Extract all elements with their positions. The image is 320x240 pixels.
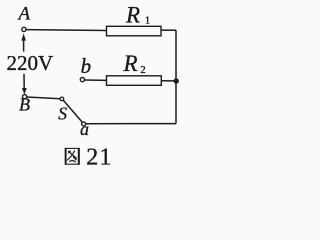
contact a xyxy=(80,119,89,139)
svg-text:A: A xyxy=(17,4,31,25)
node b xyxy=(80,54,91,82)
resistor R2 xyxy=(107,51,162,85)
voltage source 220V xyxy=(7,33,54,94)
svg-text:S: S xyxy=(58,103,67,123)
wire B to switch pivot xyxy=(27,97,60,99)
junction node xyxy=(174,78,179,83)
svg-text:b: b xyxy=(81,54,92,78)
wire right rail xyxy=(175,30,177,123)
switch S xyxy=(58,97,82,123)
wire b to R2 xyxy=(85,79,107,81)
wire A to R1 xyxy=(26,29,106,32)
caption figure 21 xyxy=(65,144,113,170)
wire R1 to right rail xyxy=(161,29,176,31)
arrow down toward B xyxy=(23,74,25,89)
wire R2 to junction xyxy=(161,80,174,82)
svg-text:220V: 220V xyxy=(7,51,54,75)
svg-text:2: 2 xyxy=(140,65,145,76)
svg-text:R: R xyxy=(125,2,140,27)
svg-text:R: R xyxy=(123,51,138,76)
svg-text:1: 1 xyxy=(145,16,150,27)
node A xyxy=(17,4,31,32)
svg-text:21: 21 xyxy=(86,144,112,170)
arrow up toward A xyxy=(21,33,26,40)
svg-text:a: a xyxy=(80,119,89,139)
wire bottom xyxy=(86,123,176,125)
resistor R1 xyxy=(107,2,162,36)
node B xyxy=(19,95,30,115)
